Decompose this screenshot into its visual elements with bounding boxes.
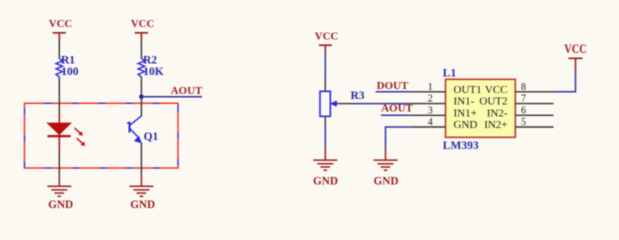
svg-text:IN2-: IN2- — [487, 107, 508, 119]
pin 8 stub — [515, 91, 553, 93]
ground GND2 — [129, 174, 153, 197]
pin R3 top — [324, 77, 326, 91]
svg-text:OUT1: OUT1 — [454, 84, 482, 96]
pin 5 stub — [515, 126, 553, 128]
svg-text:VCC: VCC — [485, 84, 508, 96]
wire R3 to GND3 — [324, 126, 326, 146]
svg-text:R1: R1 — [61, 55, 75, 67]
svg-text:GND: GND — [313, 176, 338, 188]
sensor module outline (dashed box) — [25, 103, 179, 168]
svg-text:7: 7 — [521, 94, 526, 105]
wire R1 to LED — [58, 78, 60, 114]
potentiometer R3 — [320, 90, 365, 117]
svg-text:VCC: VCC — [315, 31, 339, 43]
pin 6 stub — [515, 114, 553, 116]
wire VCC2 to R2 — [140, 42, 142, 59]
svg-text:GND: GND — [374, 176, 399, 188]
svg-text:GND: GND — [130, 199, 155, 211]
pin 2 stub — [410, 103, 445, 105]
svg-text:IN1+: IN1+ — [454, 107, 477, 119]
svg-text:8: 8 — [521, 82, 526, 93]
transistor Q1 — [127, 116, 141, 143]
svg-text:VCC: VCC — [564, 42, 587, 56]
power VCC4 — [564, 42, 587, 71]
svg-text:DOUT: DOUT — [377, 80, 409, 92]
resistor R1 — [56, 55, 79, 78]
wire pin 4 to GND4 — [386, 127, 411, 148]
svg-text:OUT2: OUT2 — [479, 96, 507, 108]
svg-text:GND: GND — [48, 199, 73, 211]
svg-text:Q1: Q1 — [144, 131, 159, 143]
ground GND1 — [47, 174, 71, 197]
svg-text:IN2+: IN2+ — [484, 119, 507, 131]
wire AOUT to pin 3 — [381, 114, 410, 116]
wire AOUT (net label) — [141, 96, 202, 98]
svg-text:VCC: VCC — [131, 18, 155, 30]
wire VCC1 to R1 — [58, 42, 60, 59]
pin 1 stub — [410, 91, 445, 93]
svg-text:R3: R3 — [351, 90, 365, 102]
svg-text:R2: R2 — [143, 55, 157, 67]
junction node AOUT — [139, 94, 144, 99]
svg-text:5: 5 — [521, 117, 526, 128]
power VCC3 — [315, 31, 339, 55]
wire pin 8 to VCC4 — [554, 71, 576, 92]
svg-text:AOUT: AOUT — [381, 103, 413, 115]
LED D1 — [48, 114, 85, 151]
svg-text:3: 3 — [428, 105, 433, 116]
ground GND3 — [313, 146, 337, 170]
power VCC1 — [49, 18, 73, 42]
pin 7 stub — [515, 103, 553, 105]
power VCC2 — [131, 18, 155, 42]
svg-text:GND: GND — [454, 119, 478, 131]
wire Q1 emitter to GND2 — [140, 142, 142, 173]
wire R3 wiper — [337, 103, 352, 105]
comparator U1 LM393 body — [446, 79, 516, 137]
wire DOUT to pin 1 — [376, 91, 411, 93]
svg-text:6: 6 — [521, 105, 526, 116]
svg-text:10K: 10K — [143, 66, 164, 78]
pin R3 bottom — [324, 116, 326, 126]
svg-text:100: 100 — [61, 66, 79, 78]
svg-text:IN1-: IN1- — [454, 96, 475, 108]
svg-text:2: 2 — [428, 94, 433, 105]
resistor R2 — [138, 55, 164, 78]
wire R2 to Q1 collector — [140, 78, 142, 117]
svg-text:L1: L1 — [443, 67, 457, 79]
svg-text:1: 1 — [428, 82, 433, 93]
svg-text:LM393: LM393 — [443, 140, 479, 152]
wire LED to GND1 — [58, 151, 60, 174]
svg-text:VCC: VCC — [49, 18, 73, 30]
ground GND4 — [374, 148, 398, 170]
svg-text:AOUT: AOUT — [171, 85, 203, 97]
svg-text:4: 4 — [428, 117, 433, 128]
pin 4 stub — [410, 126, 445, 128]
pin 3 stub — [410, 114, 445, 116]
wire VCC3 to R3 — [324, 54, 326, 77]
